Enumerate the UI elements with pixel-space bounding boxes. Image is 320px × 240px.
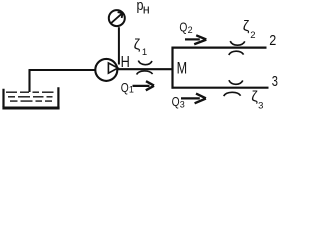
- svg-text:3: 3: [272, 74, 278, 90]
- local resistance zeta2 symbol: [229, 41, 245, 55]
- svg-text:1: 1: [142, 47, 147, 58]
- flow arrow Q2: [185, 35, 206, 44]
- water dashes row 2: [8, 96, 53, 98]
- branch pipe to node 3: [172, 87, 269, 89]
- svg-text:ζ: ζ: [134, 36, 141, 53]
- svg-text:3: 3: [258, 101, 263, 112]
- svg-text:Q: Q: [179, 19, 187, 34]
- branch pipe to node 2: [172, 46, 267, 48]
- svg-text:ζ: ζ: [243, 18, 250, 35]
- svg-text:Q: Q: [121, 80, 129, 95]
- svg-text:2: 2: [188, 25, 193, 35]
- pump triangle: [108, 63, 118, 73]
- water dashes row 3: [10, 100, 52, 102]
- pump circle: [95, 59, 117, 81]
- svg-text:2: 2: [269, 32, 276, 49]
- pressure gauge circle: [109, 10, 125, 26]
- svg-text:3: 3: [180, 99, 185, 109]
- gauge stem wire: [118, 27, 120, 64]
- svg-text:M: M: [177, 59, 188, 78]
- suction pipe horizontal segment: [29, 69, 96, 71]
- junction riser (node M vertical): [171, 47, 173, 89]
- svg-text:Q: Q: [172, 94, 180, 109]
- water surface dashes row 1: [6, 91, 54, 93]
- flow arrow Q3: [181, 94, 206, 104]
- suction pipe vertical segment: [28, 70, 30, 92]
- pump outlet pipe: [117, 68, 172, 70]
- svg-text:н: н: [143, 3, 150, 17]
- local resistance zeta3 symbol: [224, 80, 243, 96]
- tank (open reservoir): [2, 87, 59, 108]
- local resistance zeta1 symbol: [137, 61, 153, 75]
- gauge needle: [111, 12, 123, 23]
- svg-text:2: 2: [250, 30, 255, 41]
- flow arrow Q1: [133, 81, 155, 90]
